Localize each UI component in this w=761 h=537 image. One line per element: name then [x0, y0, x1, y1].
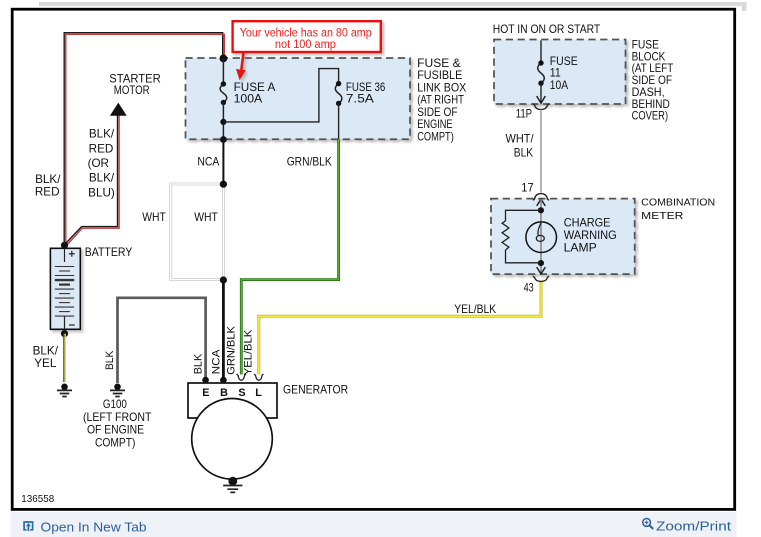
lamp filament loop	[536, 223, 544, 242]
node junction dot at fuse box bottom edge	[220, 136, 227, 143]
label STARTER MOTOR	[109, 73, 160, 97]
svg-text:136558: 136558	[21, 494, 54, 505]
svg-text:YEL: YEL	[34, 357, 57, 370]
svg-text:BLU): BLU)	[88, 186, 115, 199]
svg-text:17: 17	[521, 182, 533, 195]
node generator ground dot	[228, 477, 237, 486]
label FUSE A 100A	[234, 81, 276, 106]
svg-text:E: E	[202, 387, 209, 399]
label WHT/BLK	[506, 133, 535, 160]
svg-text:RED: RED	[35, 186, 60, 199]
node junction dot meter top	[538, 207, 544, 213]
arrow chevron down at meter exit	[537, 267, 546, 274]
wire BLK generator E to ground G100	[118, 298, 206, 383]
svg-text:CHARGE: CHARGE	[564, 217, 611, 230]
svg-text:Open In New Tab: Open In New Tab	[41, 520, 147, 535]
svg-text:not 100 amp: not 100 amp	[275, 37, 336, 51]
icon zoom magnifier	[643, 519, 654, 530]
svg-text:MOTOR: MOTOR	[114, 84, 150, 97]
wire WHT/BLK fuse block to meter	[540, 110, 542, 193]
svg-text:7.5A: 7.5A	[346, 93, 374, 106]
svg-text:WARNING: WARNING	[564, 229, 617, 242]
red warning callout box	[233, 21, 381, 52]
svg-text:LINK BOX: LINK BOX	[417, 81, 466, 94]
wire thick black to generator B	[222, 280, 225, 380]
node terminal dot B	[220, 377, 227, 384]
wire inside meter vertical	[540, 199, 542, 274]
fuse 11 symbol	[538, 63, 545, 83]
svg-text:BLK/: BLK/	[89, 172, 115, 185]
svg-text:11P: 11P	[516, 107, 533, 120]
battery plates	[55, 267, 74, 317]
svg-text:RED: RED	[89, 142, 114, 155]
svg-text:B: B	[220, 387, 228, 399]
svg-text:YEL/BLK: YEL/BLK	[454, 303, 496, 316]
connector arc at S	[237, 374, 246, 380]
svg-text:(LEFT FRONT: (LEFT FRONT	[83, 411, 152, 424]
generator body circle	[192, 399, 273, 480]
svg-text:10A: 10A	[550, 79, 568, 92]
svg-text:NCA: NCA	[211, 348, 223, 374]
connector 11P cup	[533, 104, 549, 110]
combination meter box	[491, 199, 635, 275]
svg-text:GRN/BLK: GRN/BLK	[225, 326, 237, 375]
bottom toolbar	[11, 512, 737, 537]
node battery negative terminal	[61, 330, 68, 337]
wire GRN/BLK fuse 36 to generator S	[241, 139, 338, 374]
svg-text:(OR: (OR	[88, 157, 109, 170]
svg-text:HOT IN ON OR START: HOT IN ON OR START	[493, 23, 600, 36]
svg-text:BLK: BLK	[514, 147, 533, 160]
arrow chevron down at fuse block exit	[537, 96, 546, 103]
connector arc at L	[254, 374, 263, 380]
svg-text:NCA: NCA	[197, 155, 219, 168]
wire BLK/YEL battery to ground	[64, 334, 65, 382]
icon open in new tab	[24, 522, 32, 531]
battery symbol	[50, 248, 80, 329]
arrow chevron up into meter	[537, 199, 546, 206]
svg-text:ENGINE: ENGINE	[417, 118, 453, 131]
svg-text:BLK/: BLK/	[35, 173, 61, 186]
svg-text:BLK/: BLK/	[89, 128, 115, 141]
label BLK/RED (OR BLK/BLU)	[88, 128, 115, 200]
svg-text:(AT RIGHT: (AT RIGHT	[417, 94, 464, 107]
svg-text:GRN/BLK: GRN/BLK	[287, 155, 332, 168]
node junction dot WHT bottom	[220, 276, 227, 283]
svg-text:SIDE OF: SIDE OF	[417, 106, 457, 119]
red annotation arrow	[236, 53, 246, 80]
fuse 36 symbol	[335, 84, 342, 104]
label FUSE & FUSIBLE LINK BOX	[417, 57, 466, 143]
svg-text:WHT/: WHT/	[506, 133, 535, 146]
svg-text:COMPT): COMPT)	[95, 437, 136, 450]
node junction dot meter bottom	[538, 260, 544, 266]
svg-text:YEL/BLK: YEL/BLK	[243, 330, 255, 375]
lamp circle	[526, 222, 557, 253]
svg-text:OF ENGINE: OF ENGINE	[87, 424, 144, 437]
connector 17 arch	[533, 194, 549, 201]
wire fuse 36 down inside box	[338, 103, 340, 139]
node junction dot WHT top	[220, 181, 227, 188]
wire resistor branch	[506, 210, 541, 262]
label FUSE BLOCK (AT LEFT SIDE OF DASH, BEHIND COVER)	[632, 38, 674, 122]
wire WHT loop	[171, 184, 224, 280]
wire into fuse 11	[540, 40, 542, 63]
svg-text:COMBINATION: COMBINATION	[641, 198, 715, 209]
svg-text:43: 43	[524, 282, 534, 295]
svg-text:BLK/: BLK/	[33, 344, 59, 357]
svg-text:WHT: WHT	[142, 211, 166, 224]
resistor zigzag	[502, 221, 509, 250]
svg-text:COVER): COVER)	[632, 110, 669, 123]
wire BLK/RED battery to fuse link box	[64, 33, 224, 247]
node junction dot below fuse A	[220, 119, 226, 125]
label FUSE 36 7.5A	[346, 81, 385, 106]
arrow to starter motor	[110, 103, 127, 116]
fuse & fusible link box	[186, 58, 411, 139]
svg-text:BLK: BLK	[104, 351, 116, 370]
svg-text:BATTERY: BATTERY	[85, 246, 133, 259]
svg-text:G100: G100	[103, 398, 127, 411]
generator box	[188, 383, 277, 418]
label COMBINATION METER	[641, 198, 715, 222]
pin labels E B S L	[202, 387, 262, 399]
svg-text:L: L	[255, 387, 262, 399]
wire fuse A to junction	[222, 103, 224, 140]
label BLK/YEL	[33, 344, 59, 370]
svg-text:COMPT): COMPT)	[417, 130, 454, 143]
ground battery	[57, 384, 72, 397]
wire WHT straight	[222, 184, 225, 281]
ground G100	[110, 384, 125, 397]
label G100 (LEFT FRONT OF ENGINE COMPT)	[83, 398, 152, 450]
wire fuse 11 to arrow	[540, 83, 542, 102]
svg-text:FUSE &: FUSE &	[417, 57, 461, 70]
svg-text:FUSIBLE: FUSIBLE	[417, 69, 462, 82]
wire YEL/BLK meter to generator L	[259, 281, 541, 374]
svg-text:100A: 100A	[234, 93, 263, 106]
ground generator	[223, 486, 242, 493]
svg-text:11: 11	[550, 67, 561, 80]
svg-text:WHT: WHT	[194, 211, 218, 224]
wire BLK/RED (OR BLK/BLU) battery to starter motor	[65, 112, 119, 246]
label CHARGE WARNING LAMP	[564, 217, 617, 255]
svg-text:LAMP: LAMP	[564, 241, 597, 254]
node junction dot at fuse box top	[220, 55, 228, 63]
label FUSE 11 10A	[550, 55, 578, 92]
node terminal dot E	[202, 377, 209, 384]
svg-text:BLK: BLK	[192, 354, 204, 375]
wire NCA black fuse box to WHT junction	[222, 139, 224, 184]
connector 43 cup	[533, 276, 549, 281]
svg-text:GENERATOR: GENERATOR	[283, 384, 348, 397]
label BLK/RED left	[35, 173, 61, 199]
fuse A symbol	[220, 84, 227, 103]
node battery positive terminal	[61, 242, 68, 249]
svg-text:S: S	[238, 387, 245, 399]
fuse block box	[494, 40, 626, 105]
svg-text:Zoom/Print: Zoom/Print	[656, 519, 731, 534]
top scrollbar strip	[39, 2, 743, 6]
wire stem to fuse A	[222, 58, 224, 84]
svg-text:METER: METER	[641, 211, 683, 222]
wire branch junction to fuse 36	[223, 69, 338, 122]
